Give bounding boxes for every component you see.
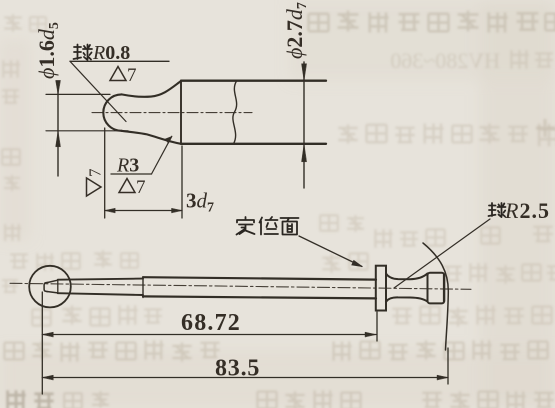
svg-text:R2.5: R2.5 xyxy=(504,198,550,223)
svg-text:7: 7 xyxy=(86,168,105,177)
svg-text:ϕ2.7d7: ϕ2.7d7 xyxy=(282,2,310,59)
svg-text:83.5: 83.5 xyxy=(215,356,260,382)
svg-text:R3: R3 xyxy=(116,155,139,177)
svg-text:ϕ1.6d5: ϕ1.6d5 xyxy=(34,22,62,79)
svg-text:7: 7 xyxy=(127,65,137,86)
svg-text:R0.8: R0.8 xyxy=(92,42,130,64)
svg-text:7: 7 xyxy=(136,177,146,198)
svg-text:68.72: 68.72 xyxy=(181,310,241,336)
svg-text:HV280~360: HV280~360 xyxy=(390,48,500,73)
